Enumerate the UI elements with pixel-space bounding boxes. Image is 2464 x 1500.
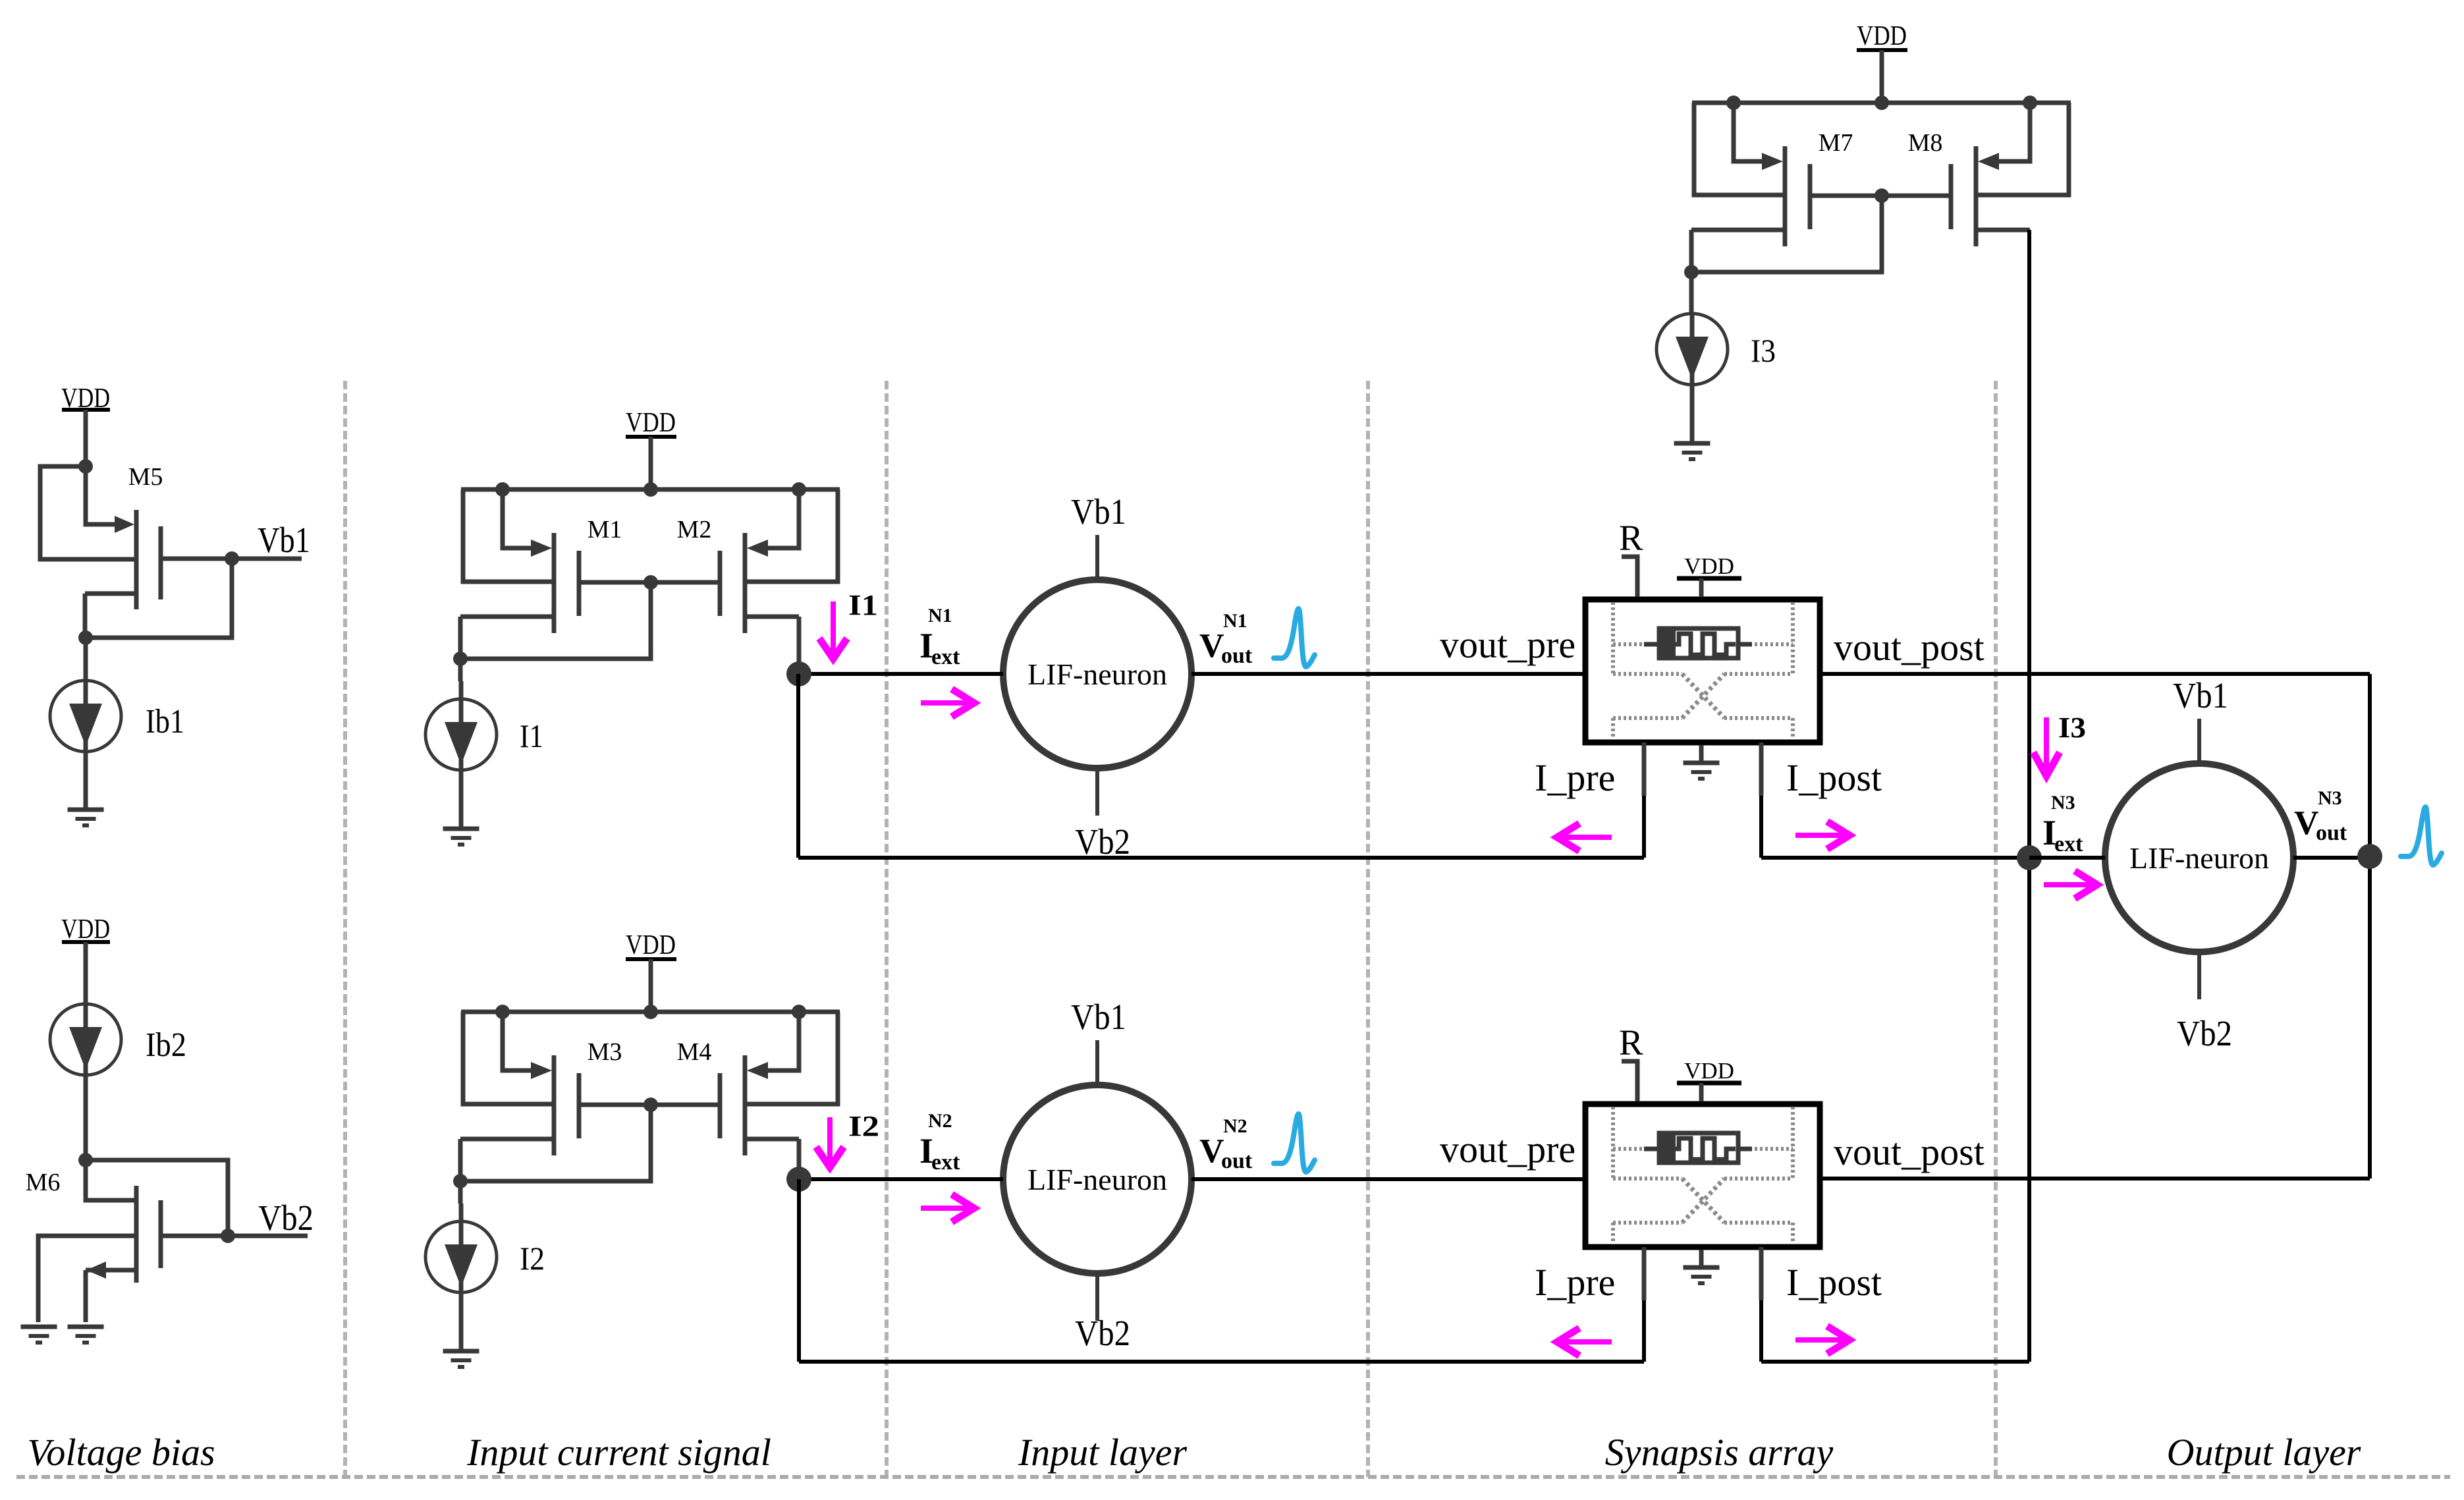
wire M6 gate to Vb2	[86, 1160, 308, 1236]
label I1 (source)	[520, 717, 543, 754]
spike symbol N1	[1274, 609, 1315, 667]
node gate dot [blk3]	[1875, 188, 1889, 203]
svg-text:VDD: VDD	[1684, 1058, 1734, 1084]
node left-bottom dot [blk3]	[1684, 265, 1699, 279]
svg-text:I3: I3	[1751, 332, 1776, 369]
label I_pre S2	[1535, 1261, 1615, 1304]
label vout_pre S1	[1440, 623, 1575, 666]
wire VDD stub to rail [blk1]	[649, 437, 653, 489]
label I_ext N1	[919, 605, 960, 669]
label vout_pre S2	[1440, 1128, 1575, 1171]
node gate dot [blk1]	[643, 575, 658, 590]
current source Ib1	[50, 638, 121, 810]
pin I_pre S1	[1642, 742, 1647, 858]
dotted net left vertical (S2)	[1611, 1107, 1615, 1179]
wire VDD to node (M5)	[84, 410, 88, 466]
label V_out N2	[1199, 1115, 1253, 1173]
transistor M4 [blk2]	[720, 1012, 838, 1155]
wire Vb2 stub (N1)	[1095, 768, 1099, 816]
pin ground (S2)	[1684, 1250, 1720, 1283]
svg-text:M7: M7	[1819, 129, 1853, 157]
label I2 (current)	[848, 1110, 879, 1142]
arrow I_post S1	[1795, 821, 1849, 849]
label M5	[128, 463, 163, 491]
LIF neuron N2 circle	[1003, 1085, 1191, 1273]
svg-text:I_post: I_post	[1786, 756, 1882, 799]
memristor leads (S2)	[1644, 1147, 1752, 1152]
node V_out N3 dot	[2357, 844, 2382, 869]
dotted cross X (S2)	[1682, 1179, 1724, 1223]
svg-text:Vb1: Vb1	[1071, 491, 1126, 532]
label vout_post S2	[1834, 1130, 1985, 1173]
label M1 [blk1]	[588, 516, 622, 543]
ground (I2)	[443, 1351, 479, 1367]
svg-text:Vb1: Vb1	[1071, 997, 1126, 1037]
transistor M6	[38, 1160, 161, 1322]
wire M5 gate to Vb1	[161, 557, 302, 561]
wire rail2 right segment	[1761, 1360, 2029, 1364]
label I_post S2	[1786, 1261, 1882, 1304]
svg-text:M1: M1	[588, 516, 622, 543]
wire M7 drain to I3	[1689, 272, 1694, 314]
node rail-right dot [blk1]	[792, 482, 806, 497]
transistor M8 [blk3]	[1951, 103, 2069, 246]
svg-text:vout_post: vout_post	[1834, 1130, 1985, 1173]
label V_out N3	[2294, 787, 2347, 845]
wire rail2 left segment	[799, 1360, 1644, 1364]
svg-text:I_pre: I_pre	[1535, 756, 1615, 799]
memristor leads (S1)	[1644, 642, 1752, 647]
label I1 (current)	[848, 589, 878, 621]
VDD supply label (bias M5)	[61, 383, 110, 414]
ground (M6 bulk)	[21, 1327, 57, 1343]
node rail-mid dot [blk2]	[643, 1005, 658, 1019]
label I3 (source)	[1751, 332, 1776, 369]
svg-text:M3: M3	[588, 1038, 622, 1066]
node rail-right dot [blk2]	[792, 1005, 806, 1019]
dotted lower rail (S2)	[1613, 1221, 1793, 1225]
arrow I2 current	[816, 1117, 844, 1167]
svg-text:N3: N3	[2318, 787, 2342, 809]
wire vout_post S2 to right rail	[1822, 1177, 2370, 1181]
svg-text:VDD: VDD	[1857, 21, 1907, 51]
pin ground (S1)	[1684, 745, 1720, 779]
svg-text:M5: M5	[128, 463, 163, 491]
svg-text:VDD: VDD	[626, 930, 676, 960]
node Ib2 out dot	[78, 1153, 93, 1167]
svg-text:M2: M2	[677, 516, 712, 543]
svg-text:ext: ext	[931, 645, 960, 669]
svg-text:LIF-neuron: LIF-neuron	[1027, 657, 1167, 691]
ground (I3)	[1674, 443, 1711, 459]
node Vb2 dot	[221, 1229, 235, 1243]
ground (I1)	[443, 829, 479, 845]
node M2 output dot	[786, 661, 811, 686]
arrow I_pre S2	[1557, 1328, 1612, 1356]
wire VDD stub to rail [blk2]	[649, 959, 653, 1012]
wire gate interconnect [blk2]	[460, 1105, 720, 1181]
label Vb1	[258, 520, 310, 560]
wire top rail [blk3]	[1692, 101, 2071, 105]
node gate dot [blk2]	[643, 1097, 658, 1112]
label I_ext N2	[919, 1110, 960, 1175]
VDD supply label for M3/M4 pair [blk2]	[626, 930, 676, 960]
svg-text:ext: ext	[931, 1150, 960, 1175]
spike symbol N2	[1274, 1114, 1315, 1172]
svg-text:N1: N1	[928, 605, 952, 626]
arrow I_pre S1	[1557, 823, 1612, 851]
label Vb2 (N2)	[1075, 1313, 1130, 1353]
wire M1 drain to I1	[458, 659, 463, 681]
wire VDD to Ib2	[84, 942, 88, 1005]
wire gate interconnect [blk1]	[460, 582, 720, 659]
wire N1 input	[799, 672, 1003, 676]
svg-text:LIF-neuron: LIF-neuron	[1027, 1163, 1167, 1196]
label Vb2	[258, 1198, 314, 1238]
wire M3 drain to I2	[458, 1181, 463, 1204]
pin R (S2)	[1622, 1061, 1637, 1101]
label Ib2	[146, 1026, 186, 1064]
node rail-right dot [blk3]	[2023, 96, 2037, 110]
svg-text:Input current signal: Input current signal	[466, 1431, 771, 1474]
svg-text:Output layer: Output layer	[2167, 1431, 2361, 1474]
svg-text:N2: N2	[1223, 1115, 1247, 1137]
dotted net lower verticals (S2)	[1613, 1107, 1793, 1244]
node Vb1 dot	[225, 551, 239, 566]
label Vb1 (N2)	[1071, 997, 1126, 1037]
pin VDD (S2)	[1677, 1058, 1741, 1101]
transistor M1 [blk1]	[460, 489, 579, 633]
wire M4 node down to rail2	[797, 1179, 801, 1362]
label I_pre S1	[1535, 756, 1615, 799]
label R (S2)	[1619, 1022, 1643, 1063]
svg-text:VDD: VDD	[1684, 553, 1734, 579]
svg-text:V: V	[1199, 1132, 1224, 1170]
wire rail1 right segment	[1761, 856, 2029, 860]
pin VDD (S1)	[1677, 553, 1741, 597]
label R (S1)	[1619, 518, 1643, 558]
arrow into N2	[921, 1194, 974, 1222]
wire M4 drain down	[797, 1139, 802, 1179]
label M8 [blk3]	[1908, 129, 1943, 157]
section divider 3	[1366, 381, 1370, 1477]
section divider 2	[885, 381, 889, 1477]
wire VDD stub to rail [blk3]	[1880, 50, 1884, 103]
ground (Ib1)	[68, 810, 104, 825]
wire Vb1 feedback	[86, 559, 232, 638]
svg-text:I_pre: I_pre	[1535, 1261, 1615, 1304]
transistor M3 [blk2]	[460, 1012, 579, 1155]
svg-text:M6: M6	[26, 1169, 61, 1196]
pin R (S1)	[1622, 557, 1637, 597]
svg-text:VDD: VDD	[626, 408, 676, 438]
current source Ib2	[50, 1004, 121, 1160]
svg-text:I2: I2	[520, 1240, 545, 1277]
svg-text:Vb2: Vb2	[1075, 1313, 1130, 1353]
svg-text:R: R	[1619, 1022, 1643, 1063]
label M3 [blk2]	[588, 1038, 622, 1066]
caption Input current signal	[466, 1431, 771, 1474]
wire M8 drain long vertical	[2027, 230, 2031, 1362]
svg-text:N3: N3	[2051, 792, 2075, 814]
svg-text:out: out	[1221, 644, 1253, 668]
caption Synapsis array	[1605, 1431, 1834, 1474]
dotted upper rail (S2)	[1613, 1177, 1793, 1181]
svg-text:R: R	[1619, 518, 1643, 558]
svg-text:Ib1: Ib1	[146, 703, 184, 740]
svg-text:N1: N1	[1223, 610, 1247, 632]
section divider 1	[343, 381, 347, 1477]
wire top rail [blk2]	[461, 1010, 840, 1014]
label M4 [blk2]	[677, 1038, 712, 1066]
svg-text:N2: N2	[928, 1110, 952, 1132]
wire left source drop [blk1]	[458, 617, 463, 659]
bottom dotted border	[16, 1475, 2450, 1479]
pin I_pre S2	[1642, 1247, 1647, 1362]
node rail-mid dot [blk3]	[1875, 96, 1889, 110]
wire N2 output to synapse S2	[1191, 1177, 1583, 1181]
dotted memristor row (S1)	[1613, 642, 1793, 646]
node M5 drain dot	[78, 459, 93, 474]
VDD supply label for M1/M2 pair [blk1]	[626, 408, 676, 438]
svg-text:out: out	[2316, 821, 2347, 845]
wire M2 node down to rail1	[796, 674, 800, 858]
svg-text:I2: I2	[848, 1110, 879, 1142]
wire N3 input	[2029, 856, 2105, 860]
arrow into N3	[2044, 871, 2097, 899]
VDD supply label (bias M6)	[61, 914, 110, 945]
svg-text:Voltage bias: Voltage bias	[27, 1431, 215, 1474]
label M7 [blk3]	[1819, 129, 1853, 157]
dotted memristor row (S2)	[1613, 1147, 1793, 1151]
label I2 (source)	[520, 1240, 545, 1277]
dotted lower rail (S1)	[1613, 716, 1793, 720]
svg-text:Vb2: Vb2	[1075, 821, 1130, 862]
svg-text:I1: I1	[848, 589, 878, 621]
pin I_post S2	[1759, 1247, 1764, 1362]
wire vout_post S1 to right rail	[1822, 672, 2370, 676]
arrow into N1	[921, 689, 974, 717]
wire Vb1 stub (N1)	[1095, 535, 1099, 580]
memristor symbol (S1)	[1658, 626, 1738, 660]
node left-bottom dot [blk2]	[453, 1174, 468, 1188]
svg-text:Vb1: Vb1	[2173, 675, 2228, 715]
svg-text:Ib2: Ib2	[146, 1026, 186, 1064]
label M6	[26, 1169, 61, 1196]
node M4 output dot	[786, 1167, 811, 1192]
node rail-left dot [blk3]	[1726, 96, 1741, 110]
node rail-mid dot [blk1]	[643, 482, 658, 497]
svg-text:vout_pre: vout_pre	[1440, 1128, 1575, 1171]
label V_out N1	[1199, 610, 1253, 668]
svg-text:Input layer: Input layer	[1018, 1431, 1188, 1474]
svg-text:LIF-neuron: LIF-neuron	[2129, 841, 2269, 875]
current source I3	[1656, 314, 1728, 443]
wire top rail [blk1]	[461, 487, 840, 492]
wire rail1 left segment	[798, 856, 1644, 860]
node I3 junction dot	[2017, 845, 2042, 870]
LIF neuron N3 circle	[2105, 764, 2293, 952]
svg-text:V: V	[1199, 627, 1224, 665]
svg-text:I3: I3	[2058, 711, 2086, 744]
wire M2 drain down	[797, 617, 802, 674]
svg-text:Vb2: Vb2	[258, 1198, 314, 1238]
ground (M6 source)	[68, 1327, 104, 1343]
wire M5 source down	[83, 594, 88, 638]
svg-text:out: out	[1221, 1149, 1253, 1173]
wire left source drop [blk2]	[458, 1139, 463, 1181]
svg-text:M8: M8	[1908, 129, 1943, 157]
svg-text:I_post: I_post	[1786, 1261, 1882, 1304]
node rail-left dot [blk1]	[495, 482, 510, 497]
dotted net left vertical (S1)	[1611, 602, 1615, 674]
node left-bottom dot [blk1]	[453, 652, 468, 666]
svg-text:Vb2: Vb2	[2177, 1013, 2232, 1053]
label I_ext N3	[2042, 792, 2083, 856]
LIF neuron N1 circle	[1003, 580, 1191, 768]
arrow I3 into junction	[2033, 717, 2060, 776]
label Vb2 (N3)	[2177, 1013, 2232, 1053]
wire right vertical (vout_post bus)	[2368, 674, 2372, 1179]
arrow I1 current	[819, 601, 847, 659]
arrow I_post S2	[1795, 1326, 1849, 1354]
label M2 [blk1]	[677, 516, 712, 543]
transistor M7 [blk3]	[1691, 103, 1810, 246]
memristor symbol (S2)	[1658, 1131, 1738, 1165]
label I3 (current)	[2058, 711, 2086, 744]
section divider 4	[1994, 381, 1998, 1477]
wire left source drop [blk3]	[1689, 230, 1694, 272]
caption Output layer	[2167, 1431, 2361, 1474]
pin I_post S1	[1759, 742, 1764, 858]
wire Vb2 stub (N2)	[1095, 1273, 1099, 1321]
transistor M5	[40, 466, 161, 609]
svg-text:Synapsis array: Synapsis array	[1605, 1431, 1834, 1474]
dotted cross X (S1)	[1682, 674, 1724, 718]
transistor M2 [blk1]	[720, 489, 838, 633]
svg-text:vout_post: vout_post	[1834, 626, 1985, 669]
node M5 source dot	[78, 630, 93, 645]
current source I1	[425, 681, 497, 829]
label Ib1	[146, 703, 184, 740]
label Vb1 (N1)	[1071, 491, 1126, 532]
label I_post S1	[1786, 756, 1882, 799]
synapse S2 box	[1585, 1104, 1820, 1247]
VDD supply label for M7/M8 pair [blk3]	[1857, 21, 1907, 51]
label vout_post S1	[1834, 626, 1985, 669]
current source I2	[425, 1204, 497, 1351]
svg-text:M4: M4	[677, 1038, 712, 1066]
node rail-left dot [blk2]	[495, 1005, 510, 1019]
wire Vb1 stub (N2)	[1095, 1040, 1099, 1085]
wire N2 input	[799, 1177, 1003, 1181]
wire gate interconnect [blk3]	[1691, 196, 1951, 272]
svg-text:ext: ext	[2054, 832, 2083, 856]
wire N1 output to synapse S1	[1191, 672, 1583, 676]
wire node to Ib1	[84, 638, 88, 681]
label Vb2 (N1)	[1075, 821, 1130, 862]
wire N3 output	[2293, 856, 2370, 860]
caption Input layer	[1018, 1431, 1188, 1474]
svg-text:vout_pre: vout_pre	[1440, 623, 1575, 666]
svg-text:I1: I1	[520, 717, 543, 754]
spike symbol N3	[2401, 807, 2442, 865]
caption Voltage bias	[27, 1431, 215, 1474]
svg-text:Vb1: Vb1	[258, 520, 310, 560]
synapse S1 box	[1585, 599, 1820, 742]
dotted upper rail (S1)	[1613, 672, 1793, 676]
wire Vb1 stub (N3)	[2197, 719, 2201, 764]
wire Vb2 stub (N3)	[2197, 952, 2201, 999]
svg-text:V: V	[2294, 804, 2319, 842]
label Vb1 (N3)	[2173, 675, 2228, 715]
dotted net lower verticals (S1)	[1613, 602, 1793, 740]
